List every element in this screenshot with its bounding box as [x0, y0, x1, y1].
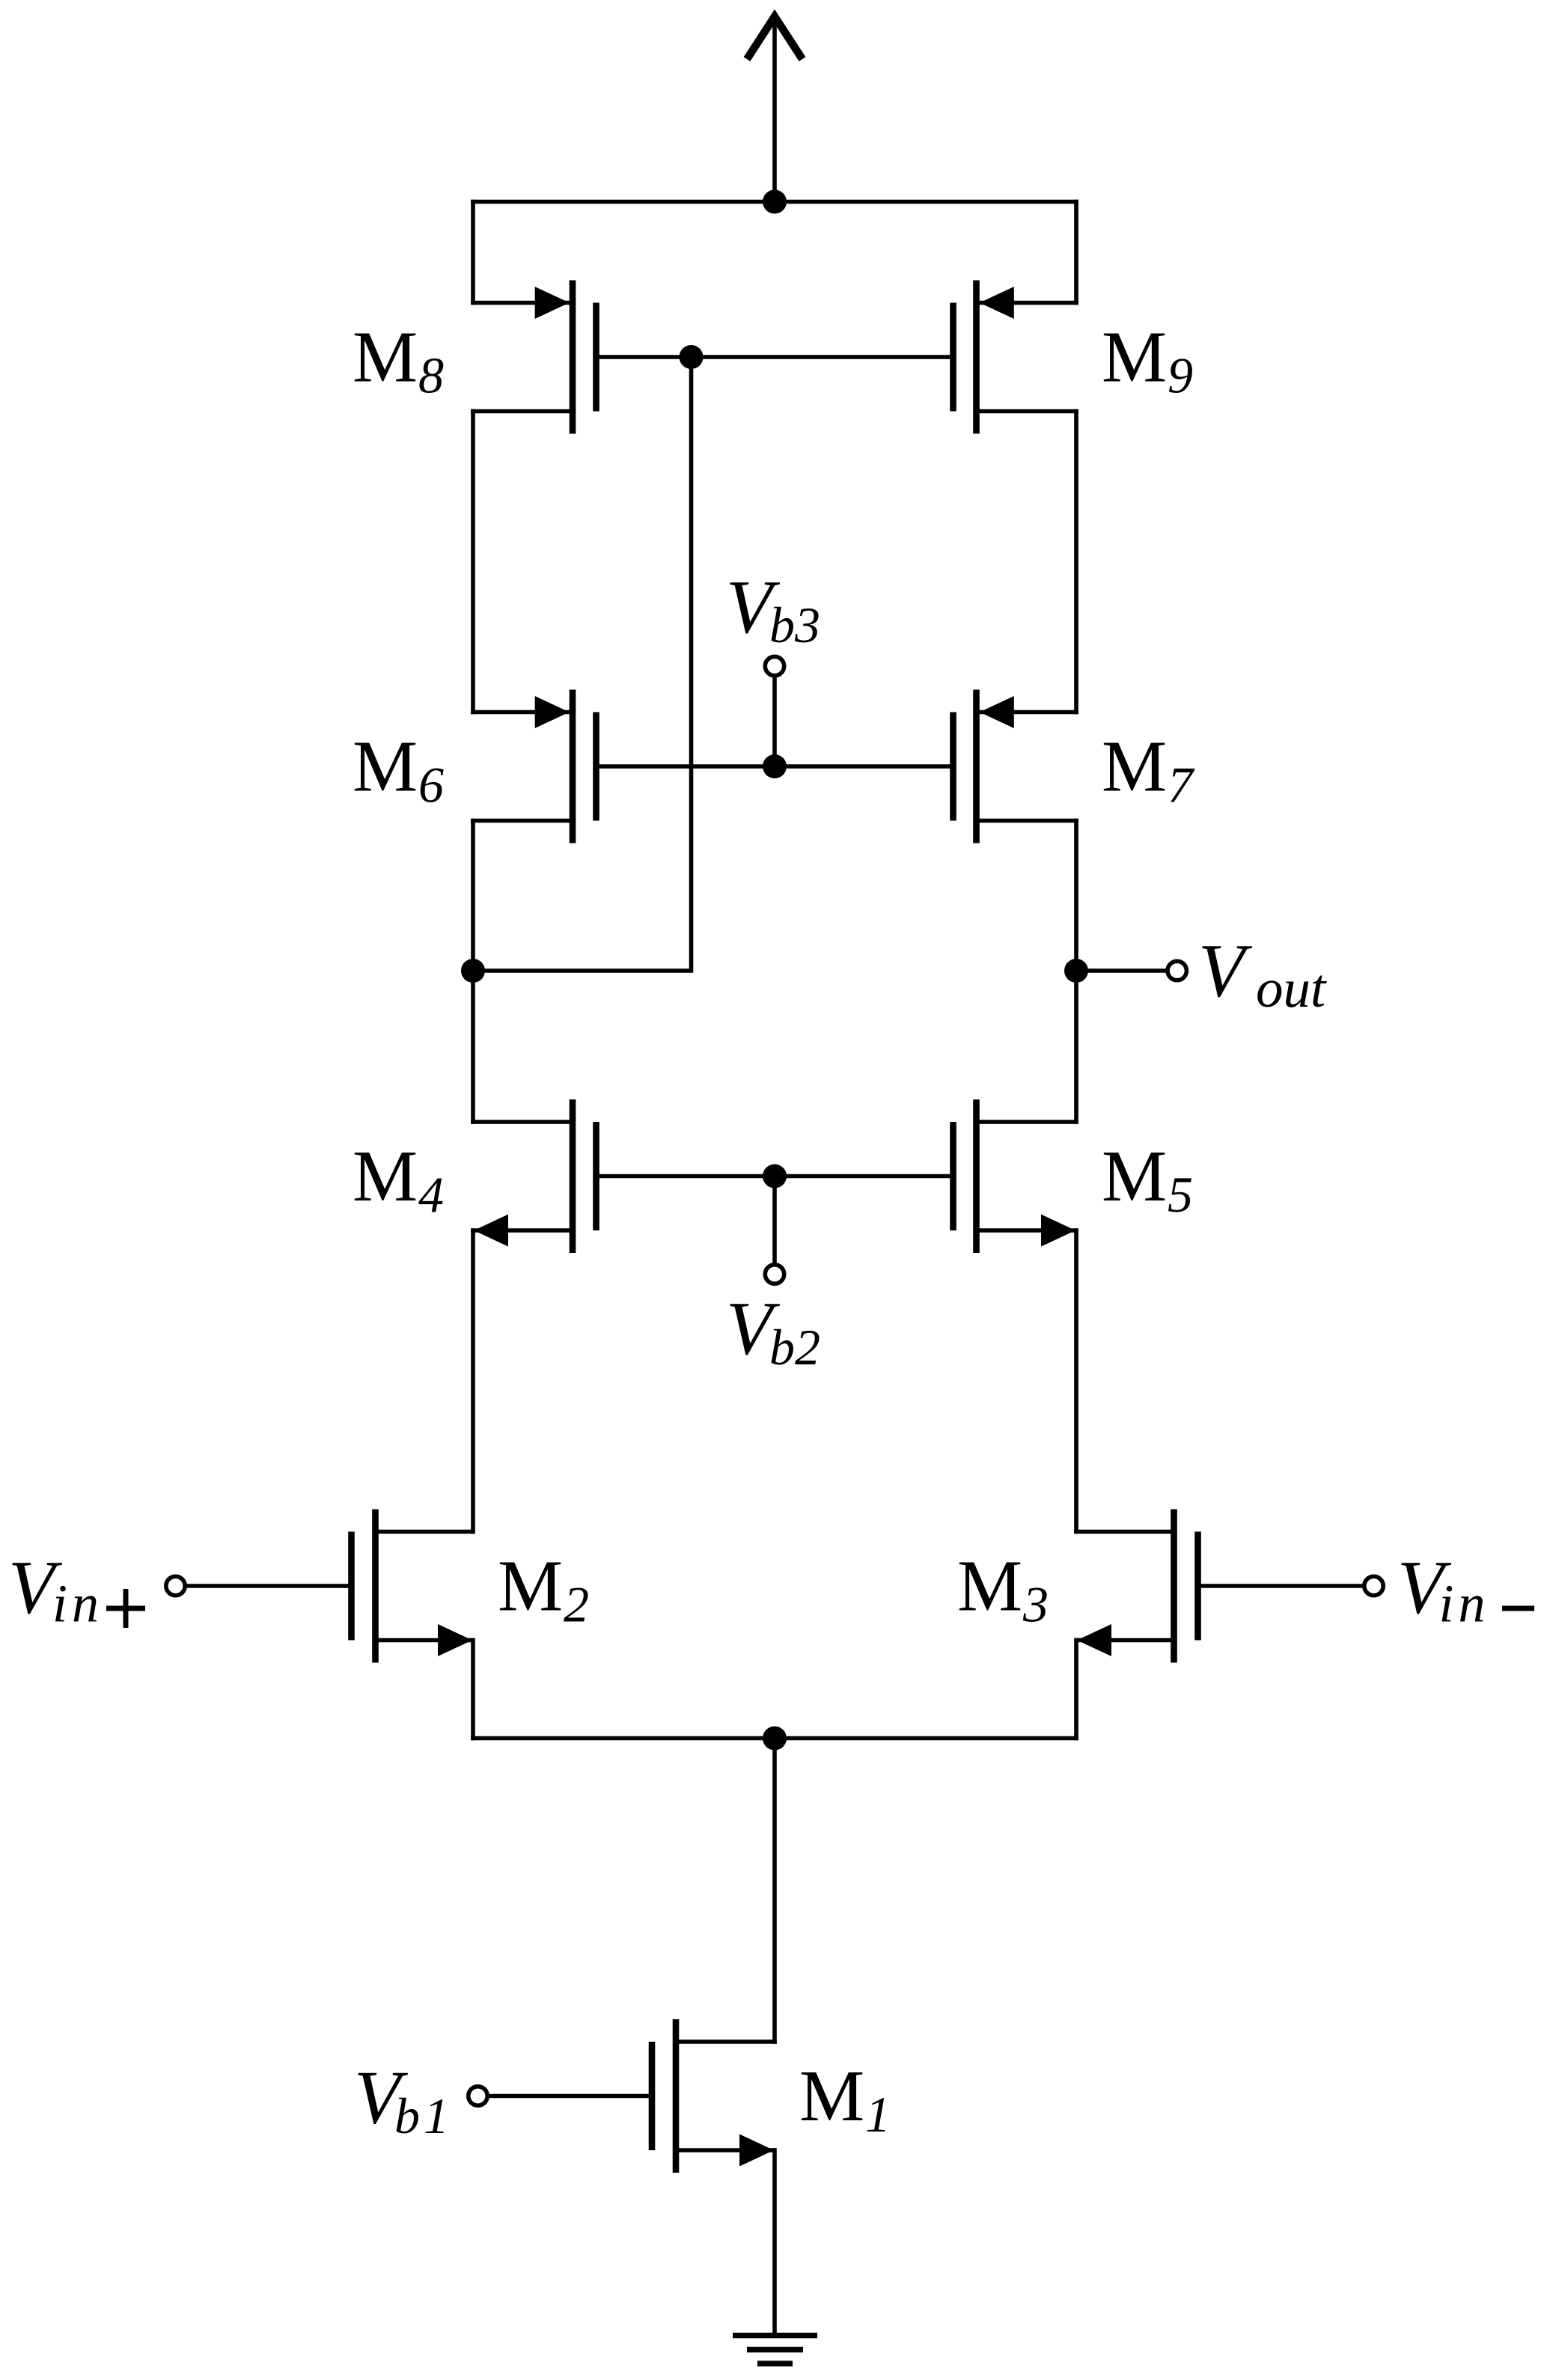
svg-text:M: M	[353, 1136, 418, 1217]
transistor M2 (NMOS input)	[372, 1510, 379, 1663]
svg-text:6: 6	[418, 757, 444, 814]
svg-text:M: M	[957, 1546, 1022, 1627]
terminal Vout	[1168, 961, 1186, 980]
terminal Vin+	[166, 1576, 185, 1595]
svg-text:M: M	[1102, 727, 1167, 808]
power supply VDD arrow	[772, 19, 777, 202]
svg-text:8: 8	[418, 347, 444, 404]
svg-text:3: 3	[1022, 1576, 1049, 1633]
node: tail junction	[763, 1727, 787, 1751]
svg-text:M: M	[1102, 317, 1167, 398]
wire: M7 drain to output node	[1074, 821, 1078, 971]
transistor M3 (NMOS input)	[1171, 1510, 1177, 1663]
svg-text:7: 7	[1168, 757, 1195, 814]
node: Vb2 junction	[763, 1165, 787, 1189]
svg-text:M: M	[1102, 1136, 1167, 1217]
node: output node	[1064, 959, 1088, 983]
svg-text:1: 1	[865, 2086, 891, 2143]
wire: Vb2 stub	[772, 1177, 777, 1265]
svg-text:V: V	[1198, 929, 1253, 1013]
transistor M7 (PMOS)	[977, 710, 1077, 715]
svg-text:2: 2	[564, 1576, 589, 1633]
wire: M6 drain to node A	[471, 821, 475, 971]
transistor M5 (NMOS cascode)	[977, 1120, 1077, 1124]
wire: output stub	[1076, 968, 1168, 973]
svg-text:in: in	[52, 1574, 103, 1634]
wire: output node to M5 drain	[1074, 971, 1078, 1122]
wire: M8 gate lead	[596, 355, 692, 359]
svg-text:M: M	[799, 2056, 864, 2137]
wire: Vin+ lead	[186, 1584, 352, 1588]
svg-text:4: 4	[418, 1166, 444, 1223]
ground	[733, 2333, 817, 2339]
transistor M1 (NMOS tail current source)	[673, 2019, 680, 2173]
wire: gate junction to M9 gate	[692, 355, 953, 359]
svg-text:M: M	[353, 727, 418, 808]
terminal Vb2	[765, 1265, 784, 1284]
svg-text:9: 9	[1168, 347, 1193, 404]
node: M8/M9 gate junction	[680, 345, 704, 369]
svg-text:b3: b3	[769, 596, 820, 653]
transistor M8 (PMOS)	[473, 301, 573, 305]
wire: rail to M8 source	[471, 202, 475, 303]
node A (M6/M4 drain junction)	[461, 959, 485, 983]
wire: M8 drain to M6 source	[471, 412, 475, 713]
terminal Vb3	[765, 656, 784, 675]
svg-text:b2: b2	[769, 1319, 820, 1376]
wire: VDD rail	[473, 200, 1076, 204]
svg-text:out: out	[1256, 958, 1327, 1019]
transistor M4 (NMOS cascode)	[473, 1120, 573, 1124]
terminal Vb1	[469, 2087, 487, 2105]
wire: M3 source to tail	[1074, 1641, 1078, 1739]
wire: M5 source to M3 drain	[1074, 1230, 1078, 1532]
svg-text:b1: b1	[394, 2087, 453, 2144]
wire: M6/M7 gate rail	[596, 764, 953, 769]
svg-text:M: M	[353, 317, 418, 398]
terminal Vin-	[1364, 1576, 1383, 1595]
transistor M6 (PMOS)	[473, 710, 573, 715]
node: Vb3 junction	[763, 754, 787, 778]
svg-text:M: M	[498, 1546, 563, 1627]
wire: M9 drain to M7 source	[1074, 412, 1078, 713]
wire: M4 source to M2 drain	[471, 1230, 475, 1532]
wire: M4/M5 gate rail	[596, 1174, 953, 1179]
wire: node A to M4 drain	[471, 971, 475, 1122]
wire: Vb3 stub	[772, 676, 777, 766]
wire: Vb1 lead	[488, 2094, 653, 2099]
wire: Vin- lead	[1198, 1584, 1364, 1588]
wire: tail to M1 drain	[772, 1739, 777, 2042]
transistor M9 (PMOS)	[977, 301, 1077, 305]
wire: tail rail	[473, 1736, 1076, 1741]
node: VDD rail junction	[763, 190, 787, 214]
wire: M1 source to ground	[772, 2150, 777, 2333]
wire: gate junction drop to cascode node	[473, 357, 692, 971]
svg-text:in: in	[1439, 1574, 1490, 1634]
svg-text:5: 5	[1168, 1166, 1193, 1223]
wire: M2 source to tail	[471, 1641, 475, 1739]
wire: rail to M9 source	[1074, 202, 1078, 303]
